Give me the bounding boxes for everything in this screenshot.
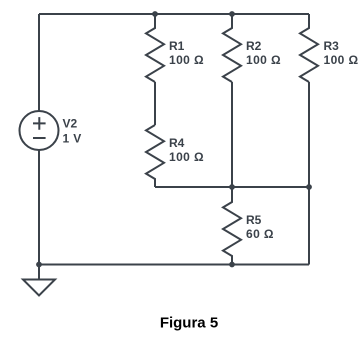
wire R3 to middle rail: [308, 82, 310, 187]
node junction middle R3: [306, 184, 312, 190]
node junction top R1: [152, 11, 158, 17]
svg-text:R2: R2: [246, 39, 262, 53]
resistor R4: [146, 125, 164, 187]
wire left vertical top (V2 to top rail): [38, 14, 40, 111]
svg-text:100 Ω: 100 Ω: [246, 53, 281, 67]
node junction bottom R5: [229, 262, 235, 268]
svg-text:100 Ω: 100 Ω: [169, 53, 204, 67]
svg-text:R4: R4: [169, 136, 185, 150]
wire R1 to R4: [154, 82, 156, 125]
svg-text:60 Ω: 60 Ω: [246, 227, 274, 241]
node junction bottom-left: [36, 262, 42, 268]
voltage source V2: [20, 111, 59, 150]
svg-text:R3: R3: [324, 39, 340, 53]
svg-text:100 Ω: 100 Ω: [169, 150, 204, 164]
svg-text:100 Ω: 100 Ω: [324, 53, 359, 67]
resistor R3: [300, 14, 318, 82]
wire R2 to middle rail: [231, 82, 233, 187]
wire middle rail: [155, 186, 309, 188]
wire bottom rail: [39, 264, 309, 266]
svg-text:V2: V2: [63, 117, 78, 131]
resistor R1: [146, 14, 164, 82]
svg-text:R5: R5: [246, 213, 262, 227]
wire R3 branch middle to bottom rail: [308, 187, 310, 265]
resistor R2: [223, 14, 241, 82]
svg-text:1 V: 1 V: [63, 131, 82, 145]
wire top rail: [39, 13, 309, 15]
resistor R5: [223, 187, 241, 265]
svg-text:Figura 5: Figura 5: [160, 315, 218, 332]
ground: [23, 265, 55, 296]
node junction top R2: [229, 11, 235, 17]
wire left vertical bottom (V2 to bottom rail): [38, 150, 40, 265]
svg-text:R1: R1: [169, 39, 185, 53]
node junction middle R5: [229, 184, 235, 190]
